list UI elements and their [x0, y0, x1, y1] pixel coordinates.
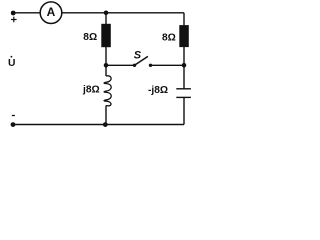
resistor R1 8ohm body	[101, 24, 111, 47]
minus polarity mark	[12, 115, 15, 117]
wire right vertical: capacitor C1 to bottom corner	[183, 97, 185, 124]
dot of U-dot	[11, 56, 13, 58]
inductor L1 coil	[104, 76, 111, 106]
switch S blade	[135, 56, 148, 65]
wire switch left: node A to switch contact	[106, 64, 135, 66]
plus polarity mark	[11, 17, 17, 23]
node junction top middle	[104, 11, 109, 16]
svg-text:-j8Ω: -j8Ω	[148, 85, 168, 96]
wire top-left: terminal to ammeter	[13, 12, 41, 14]
wire right vertical: resistor R2 to node B	[183, 46, 185, 65]
wire bottom: bottom-right corner to terminal	[13, 124, 184, 126]
wire middle vertical: top node to resistor R1	[105, 13, 107, 25]
capacitor C1 top plate	[176, 88, 191, 90]
node junction bottom middle	[103, 122, 108, 127]
wire top: ammeter to top-right corner	[62, 12, 185, 14]
capacitor C1 bottom plate	[176, 96, 191, 98]
wire middle vertical: node A to inductor L1	[105, 65, 107, 76]
svg-text:8Ω: 8Ω	[162, 33, 176, 44]
wire middle vertical: resistor R1 to node A	[105, 46, 107, 65]
svg-text:U: U	[8, 58, 15, 69]
node B junction right	[182, 63, 187, 68]
svg-text:A: A	[47, 5, 56, 19]
svg-text:S: S	[134, 50, 142, 62]
terminal node top-left	[11, 11, 16, 16]
wire switch right: switch contact to node B	[151, 64, 185, 66]
resistor R2 8ohm body	[179, 25, 189, 47]
wire right vertical: node B to capacitor C1	[183, 65, 185, 89]
switch S right contact dot	[149, 64, 152, 67]
wire right vertical: corner to resistor R2	[183, 13, 185, 26]
ammeter U1 circle	[40, 2, 62, 24]
svg-text:j8Ω: j8Ω	[82, 84, 100, 95]
terminal node bottom-left	[11, 122, 16, 127]
svg-text:8Ω: 8Ω	[83, 32, 97, 43]
switch S left contact dot	[133, 64, 136, 67]
node A junction middle	[104, 63, 109, 68]
wire middle vertical: inductor L1 to bottom node	[105, 106, 107, 125]
